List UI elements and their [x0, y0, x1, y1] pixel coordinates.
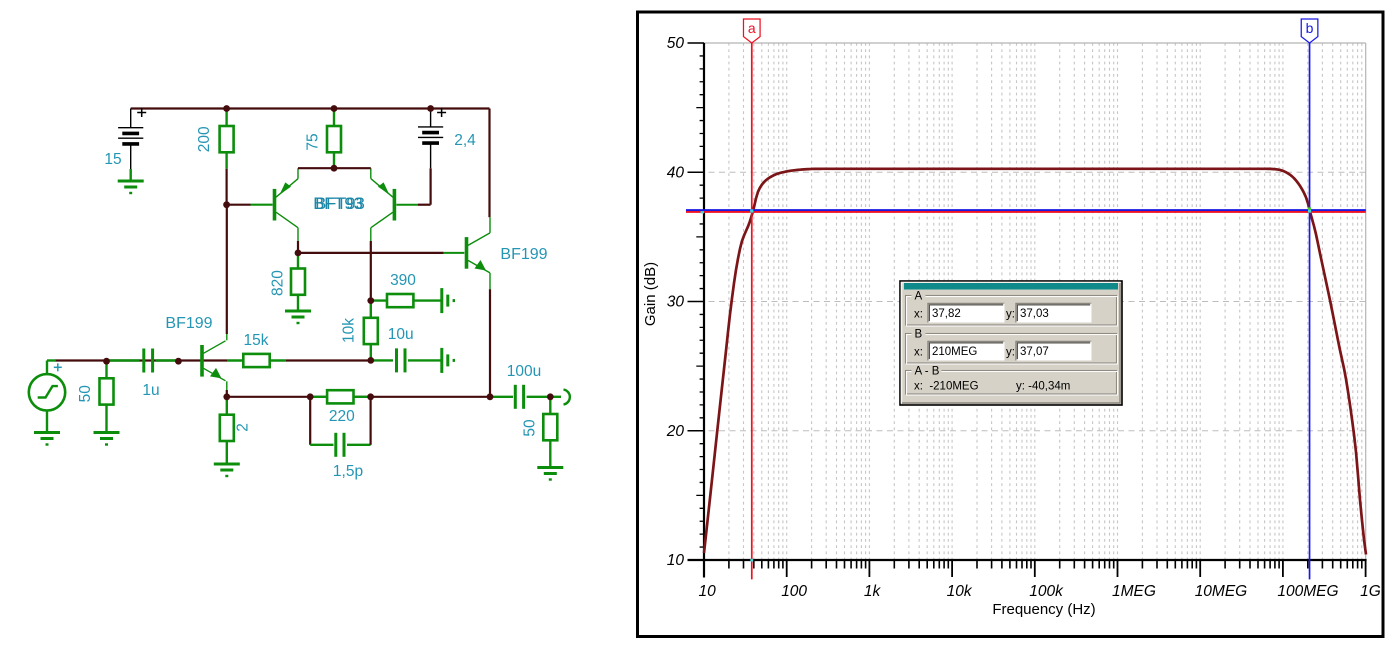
cursor b horizontal line [686, 209, 1366, 211]
resistor 820 [297, 253, 299, 269]
marker b intersection [1308, 207, 1311, 210]
resistor 220 [310, 396, 327, 398]
grid vertical dashed [729, 43, 1362, 560]
svg-text:BF199: BF199 [165, 315, 212, 332]
resistor 390 [371, 299, 387, 301]
svg-text:10: 10 [699, 583, 717, 600]
marker a intersection [750, 209, 753, 212]
svg-text:x: -210MEG: x: -210MEG [914, 381, 979, 393]
wire Q1 collector down [297, 228, 299, 241]
wire 15k to 10k node [286, 359, 371, 361]
node 220 right [367, 393, 374, 400]
resistor 50 input [105, 361, 107, 379]
info A y field [1016, 304, 1092, 323]
wire Q4 collector [489, 217, 491, 233]
svg-text:x:: x: [914, 309, 923, 321]
svg-text:2: 2 [235, 423, 252, 432]
ground R50 output [537, 466, 563, 469]
transistor Q2 BFT93 (PNP right) [393, 189, 397, 221]
svg-text:390: 390 [390, 272, 416, 289]
ground battery 15 [129, 169, 131, 181]
svg-text:50: 50 [522, 419, 539, 437]
svg-text:Gain (dB): Gain (dB) [642, 262, 659, 326]
svg-text:200: 200 [196, 126, 213, 152]
node 220 left [307, 393, 314, 400]
wire Q3 collector up [226, 334, 228, 340]
svg-text:100u: 100u [507, 363, 541, 380]
x ticks major [704, 560, 1366, 577]
chart frame [638, 12, 1384, 637]
wire +15V to Q4 collector [488, 109, 490, 218]
svg-text:BFT93: BFT93 [315, 195, 365, 213]
svg-text:210MEG: 210MEG [932, 346, 977, 358]
wire Q2 collector down [370, 228, 372, 241]
wire base rail [178, 359, 227, 361]
wire 1.5p right [370, 397, 372, 445]
node rail-battery2 [427, 105, 434, 112]
y ticks major [688, 43, 705, 431]
svg-text:A: A [915, 291, 923, 303]
svg-text:10u: 10u [388, 326, 414, 343]
wire Q1-collector to Q4 base [298, 252, 444, 254]
cursor a vertical line [751, 43, 753, 579]
svg-text:10MEG: 10MEG [1195, 583, 1248, 600]
info group A [906, 296, 1117, 326]
capacitor 1u [107, 359, 140, 361]
node Q1 collector [295, 250, 302, 257]
svg-text:A - B: A - B [915, 366, 940, 378]
wire base Q1 [227, 204, 251, 206]
wire emitters rail [298, 167, 371, 169]
battery V1 15V [130, 109, 132, 128]
svg-text:15: 15 [104, 151, 121, 168]
svg-text:40: 40 [667, 164, 685, 181]
cursor info box panel [900, 281, 1122, 405]
wire top +15V rail [131, 107, 490, 109]
transistor Q1 BFT93 (PNP left) [273, 189, 277, 221]
svg-text:100MEG: 100MEG [1277, 583, 1338, 600]
y axis [703, 43, 705, 578]
resistor 50 output [549, 397, 551, 414]
node base Q1 left [223, 201, 230, 208]
node rail-75 [331, 105, 338, 112]
wire source to input node [46, 361, 48, 375]
resistor 200 [225, 109, 227, 127]
info A x field [928, 304, 1005, 323]
svg-text:x:: x: [914, 347, 923, 359]
svg-text:75: 75 [305, 133, 322, 150]
svg-text:1u: 1u [142, 382, 159, 399]
svg-text:10k: 10k [947, 583, 973, 600]
cursor flag a [743, 19, 760, 43]
capacitor 1,5p [310, 444, 333, 446]
svg-text:a: a [748, 20, 756, 36]
node R10k bottom [367, 357, 374, 364]
svg-text:100: 100 [781, 583, 807, 600]
trace gain curve [704, 169, 1366, 555]
y ticks minor [700, 56, 704, 547]
svg-text:100k: 100k [1029, 583, 1064, 600]
info B x field [928, 342, 1005, 361]
cursor b vertical line [1309, 43, 1311, 579]
transistor Q4 BF199 (NPN right) [465, 237, 469, 269]
grid top 50dB solid [688, 42, 1366, 44]
source VG1 [29, 374, 65, 410]
svg-text:y:: y: [1006, 347, 1015, 359]
node Q3 emitter [223, 393, 230, 400]
svg-text:15k: 15k [244, 332, 269, 349]
ground R820 [285, 310, 311, 313]
svg-text:2,4: 2,4 [454, 132, 476, 149]
cursor flag b [1301, 19, 1318, 43]
svg-text:y:: y: [1006, 309, 1015, 321]
svg-text:1k: 1k [864, 583, 882, 600]
node input-cap right [175, 358, 182, 365]
transistor Q3 BF199 (NPN input) [200, 345, 204, 377]
resistor 15k [227, 359, 243, 361]
wire battery2.4 to base Q2 [430, 168, 432, 204]
node rail-200 [223, 105, 230, 112]
wire emitter rail [227, 396, 490, 398]
resistor 75 [333, 109, 335, 127]
svg-text:10: 10 [667, 552, 685, 569]
marker a axis [750, 559, 753, 562]
svg-text:37,82: 37,82 [932, 308, 961, 320]
ground R50 input [94, 431, 120, 434]
wire Q4 emitter down [489, 273, 491, 289]
capacitor 100u [490, 396, 513, 398]
wire 1.5p left [309, 397, 311, 445]
svg-text:820: 820 [270, 270, 287, 296]
svg-text:y: -40,34m: y: -40,34m [1016, 381, 1070, 393]
terminal output [564, 390, 570, 405]
svg-text:220: 220 [329, 408, 355, 425]
wire Q3 emitter down [226, 381, 228, 390]
ground R390 [440, 288, 443, 313]
y ticks mid [696, 108, 704, 496]
capacitor 10u [371, 359, 393, 361]
x axis [688, 559, 1367, 561]
svg-text:BF199: BF199 [500, 246, 547, 263]
info group B [906, 334, 1117, 364]
svg-text:37,07: 37,07 [1020, 346, 1049, 358]
marker a yaxis [701, 211, 704, 213]
node output cap left [487, 393, 494, 400]
svg-text:1MEG: 1MEG [1112, 583, 1156, 600]
svg-text:Frequency (Hz): Frequency (Hz) [992, 601, 1095, 618]
cursor a horizontal line [686, 211, 1366, 213]
info B y field [1016, 342, 1092, 361]
resistor 10k [370, 301, 372, 318]
ground C10u [440, 348, 443, 373]
svg-text:B: B [915, 329, 923, 341]
wire R200 to node [226, 169, 228, 205]
grid horizontal dashed [688, 172, 1366, 431]
svg-text:10k: 10k [341, 318, 358, 343]
grid right 1G solid [1365, 43, 1367, 560]
svg-text:20: 20 [666, 423, 685, 440]
svg-text:30: 30 [667, 294, 685, 311]
info box title bar [904, 283, 1118, 290]
svg-text:1G: 1G [1360, 583, 1381, 600]
svg-text:50: 50 [77, 385, 94, 403]
node input-50 [103, 358, 110, 365]
info group A-B [906, 371, 1117, 395]
resistor 2 [226, 397, 228, 415]
x ticks minor [729, 560, 1362, 569]
svg-text:1,5p: 1,5p [333, 463, 363, 480]
ground R2 [214, 463, 240, 466]
node output [547, 393, 554, 400]
svg-text:37,03: 37,03 [1020, 308, 1049, 320]
svg-text:50: 50 [667, 35, 685, 52]
battery V2 2.4V [430, 109, 432, 127]
ground source [46, 411, 48, 433]
node emitters-75 [331, 165, 338, 172]
node R390-R10k [367, 297, 374, 304]
svg-text:b: b [1306, 20, 1314, 36]
